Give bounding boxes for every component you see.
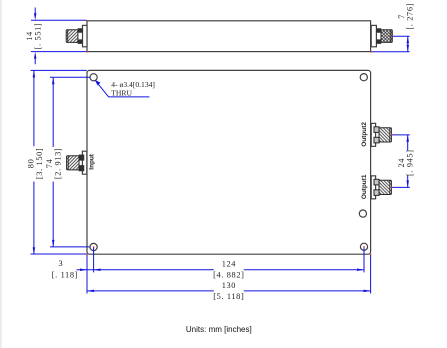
svg-text:Output1: Output1 — [361, 174, 368, 199]
svg-text:[. 945]: [. 945] — [406, 149, 415, 176]
svg-text:[. 276]: [. 276] — [406, 3, 415, 30]
svg-text:Units: mm [inches]: Units: mm [inches] — [186, 325, 252, 334]
svg-text:THRU: THRU — [111, 89, 132, 98]
svg-text:[3. 150]: [3. 150] — [35, 148, 44, 179]
svg-text:[4. 882]: [4. 882] — [213, 271, 244, 280]
svg-text:[2. 913]: [2. 913] — [54, 148, 63, 179]
svg-text:[5. 118]: [5. 118] — [213, 292, 244, 301]
svg-text:[. 118]: [. 118] — [52, 271, 78, 280]
svg-text:124: 124 — [222, 260, 237, 269]
svg-text:130: 130 — [222, 281, 236, 290]
svg-text:Output2: Output2 — [361, 122, 368, 147]
svg-text:3: 3 — [58, 259, 63, 268]
svg-text:[. 551]: [. 551] — [33, 23, 42, 50]
svg-text:Input: Input — [88, 153, 95, 169]
